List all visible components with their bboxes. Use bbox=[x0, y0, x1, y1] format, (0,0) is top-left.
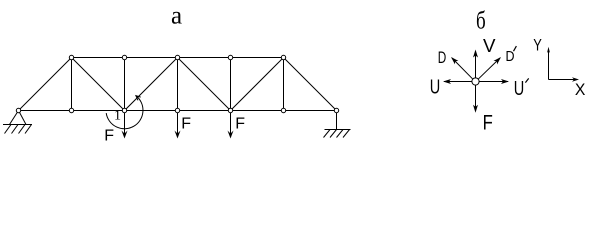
arrowhead U bbox=[443, 79, 451, 84]
svg-text:U: U bbox=[514, 78, 525, 100]
diagonal T1-B2 bbox=[72, 58, 125, 111]
svg-text:F: F bbox=[181, 115, 191, 132]
diagonal T5-B4 bbox=[231, 58, 284, 111]
Y axis bbox=[548, 49, 550, 80]
vertical T1-B1 bbox=[71, 58, 73, 111]
roller support at B6 bbox=[324, 111, 351, 138]
pin support at B0 bbox=[3, 111, 32, 134]
svg-text:Y: Y bbox=[533, 37, 542, 55]
node B6 bbox=[334, 108, 338, 112]
svg-text:F: F bbox=[235, 115, 245, 132]
arrowhead U' bbox=[501, 79, 509, 84]
arrowhead V bbox=[473, 50, 478, 58]
node B0 bbox=[16, 108, 20, 112]
node B5 bbox=[281, 108, 285, 112]
arrowhead X axis bbox=[572, 77, 579, 82]
svg-text:1: 1 bbox=[114, 109, 121, 124]
vertical T3-B3 bbox=[177, 58, 179, 111]
joint node circle bbox=[472, 78, 479, 85]
angle arc 1 at node B2 bbox=[106, 96, 143, 129]
force F at B3 bbox=[175, 111, 181, 139]
node B1 bbox=[69, 108, 73, 112]
vertical T4-B4 bbox=[230, 58, 232, 111]
arrow D' shaft bbox=[478, 58, 500, 79]
arrow U shaft bbox=[444, 81, 472, 83]
diagonal T3-B4 bbox=[178, 58, 231, 111]
node T3 bbox=[175, 55, 179, 59]
arrowhead Y axis bbox=[547, 47, 550, 53]
node circles bbox=[16, 55, 338, 112]
svg-text:D: D bbox=[438, 48, 447, 67]
svg-text:а: а bbox=[171, 3, 182, 30]
arrowhead D' bbox=[494, 57, 502, 65]
svg-text:X: X bbox=[575, 80, 586, 99]
arrowhead D bbox=[451, 57, 458, 64]
svg-text:V: V bbox=[483, 36, 496, 56]
prime of D' bbox=[514, 46, 517, 51]
node B2 bbox=[122, 108, 126, 112]
prime of U' bbox=[525, 78, 528, 82]
node T1 bbox=[69, 55, 73, 59]
force F at B4 bbox=[228, 111, 234, 139]
node T2 bbox=[122, 55, 126, 59]
vertical T5-B5 bbox=[283, 58, 285, 111]
top chord T1-T5 bbox=[72, 57, 284, 59]
svg-text:F: F bbox=[483, 111, 493, 134]
bottom chord B0-B6 bbox=[19, 110, 337, 112]
arrow F shaft bbox=[475, 86, 477, 112]
end diagonal B0-T1 bbox=[19, 58, 72, 111]
end diagonal T5-B6 bbox=[284, 58, 337, 111]
arrowhead F bbox=[473, 105, 478, 113]
diagonal T3-B2 bbox=[125, 58, 178, 111]
arrow U' shaft bbox=[479, 81, 508, 83]
node T5 bbox=[281, 55, 285, 59]
force F at B2 bbox=[122, 111, 128, 139]
arrow D shaft bbox=[452, 58, 473, 79]
joint free-body diagram: arrows bbox=[444, 51, 508, 111]
svg-text:F: F bbox=[104, 128, 114, 145]
arrow V shaft bbox=[475, 51, 477, 78]
node T4 bbox=[228, 55, 232, 59]
node B3 bbox=[175, 108, 179, 112]
svg-text:U: U bbox=[430, 77, 441, 99]
coordinate axes bbox=[549, 49, 577, 80]
svg-text:б: б bbox=[476, 8, 486, 35]
node B4 bbox=[228, 108, 232, 112]
X axis bbox=[549, 79, 577, 81]
vertical T2-B2 bbox=[124, 58, 126, 111]
